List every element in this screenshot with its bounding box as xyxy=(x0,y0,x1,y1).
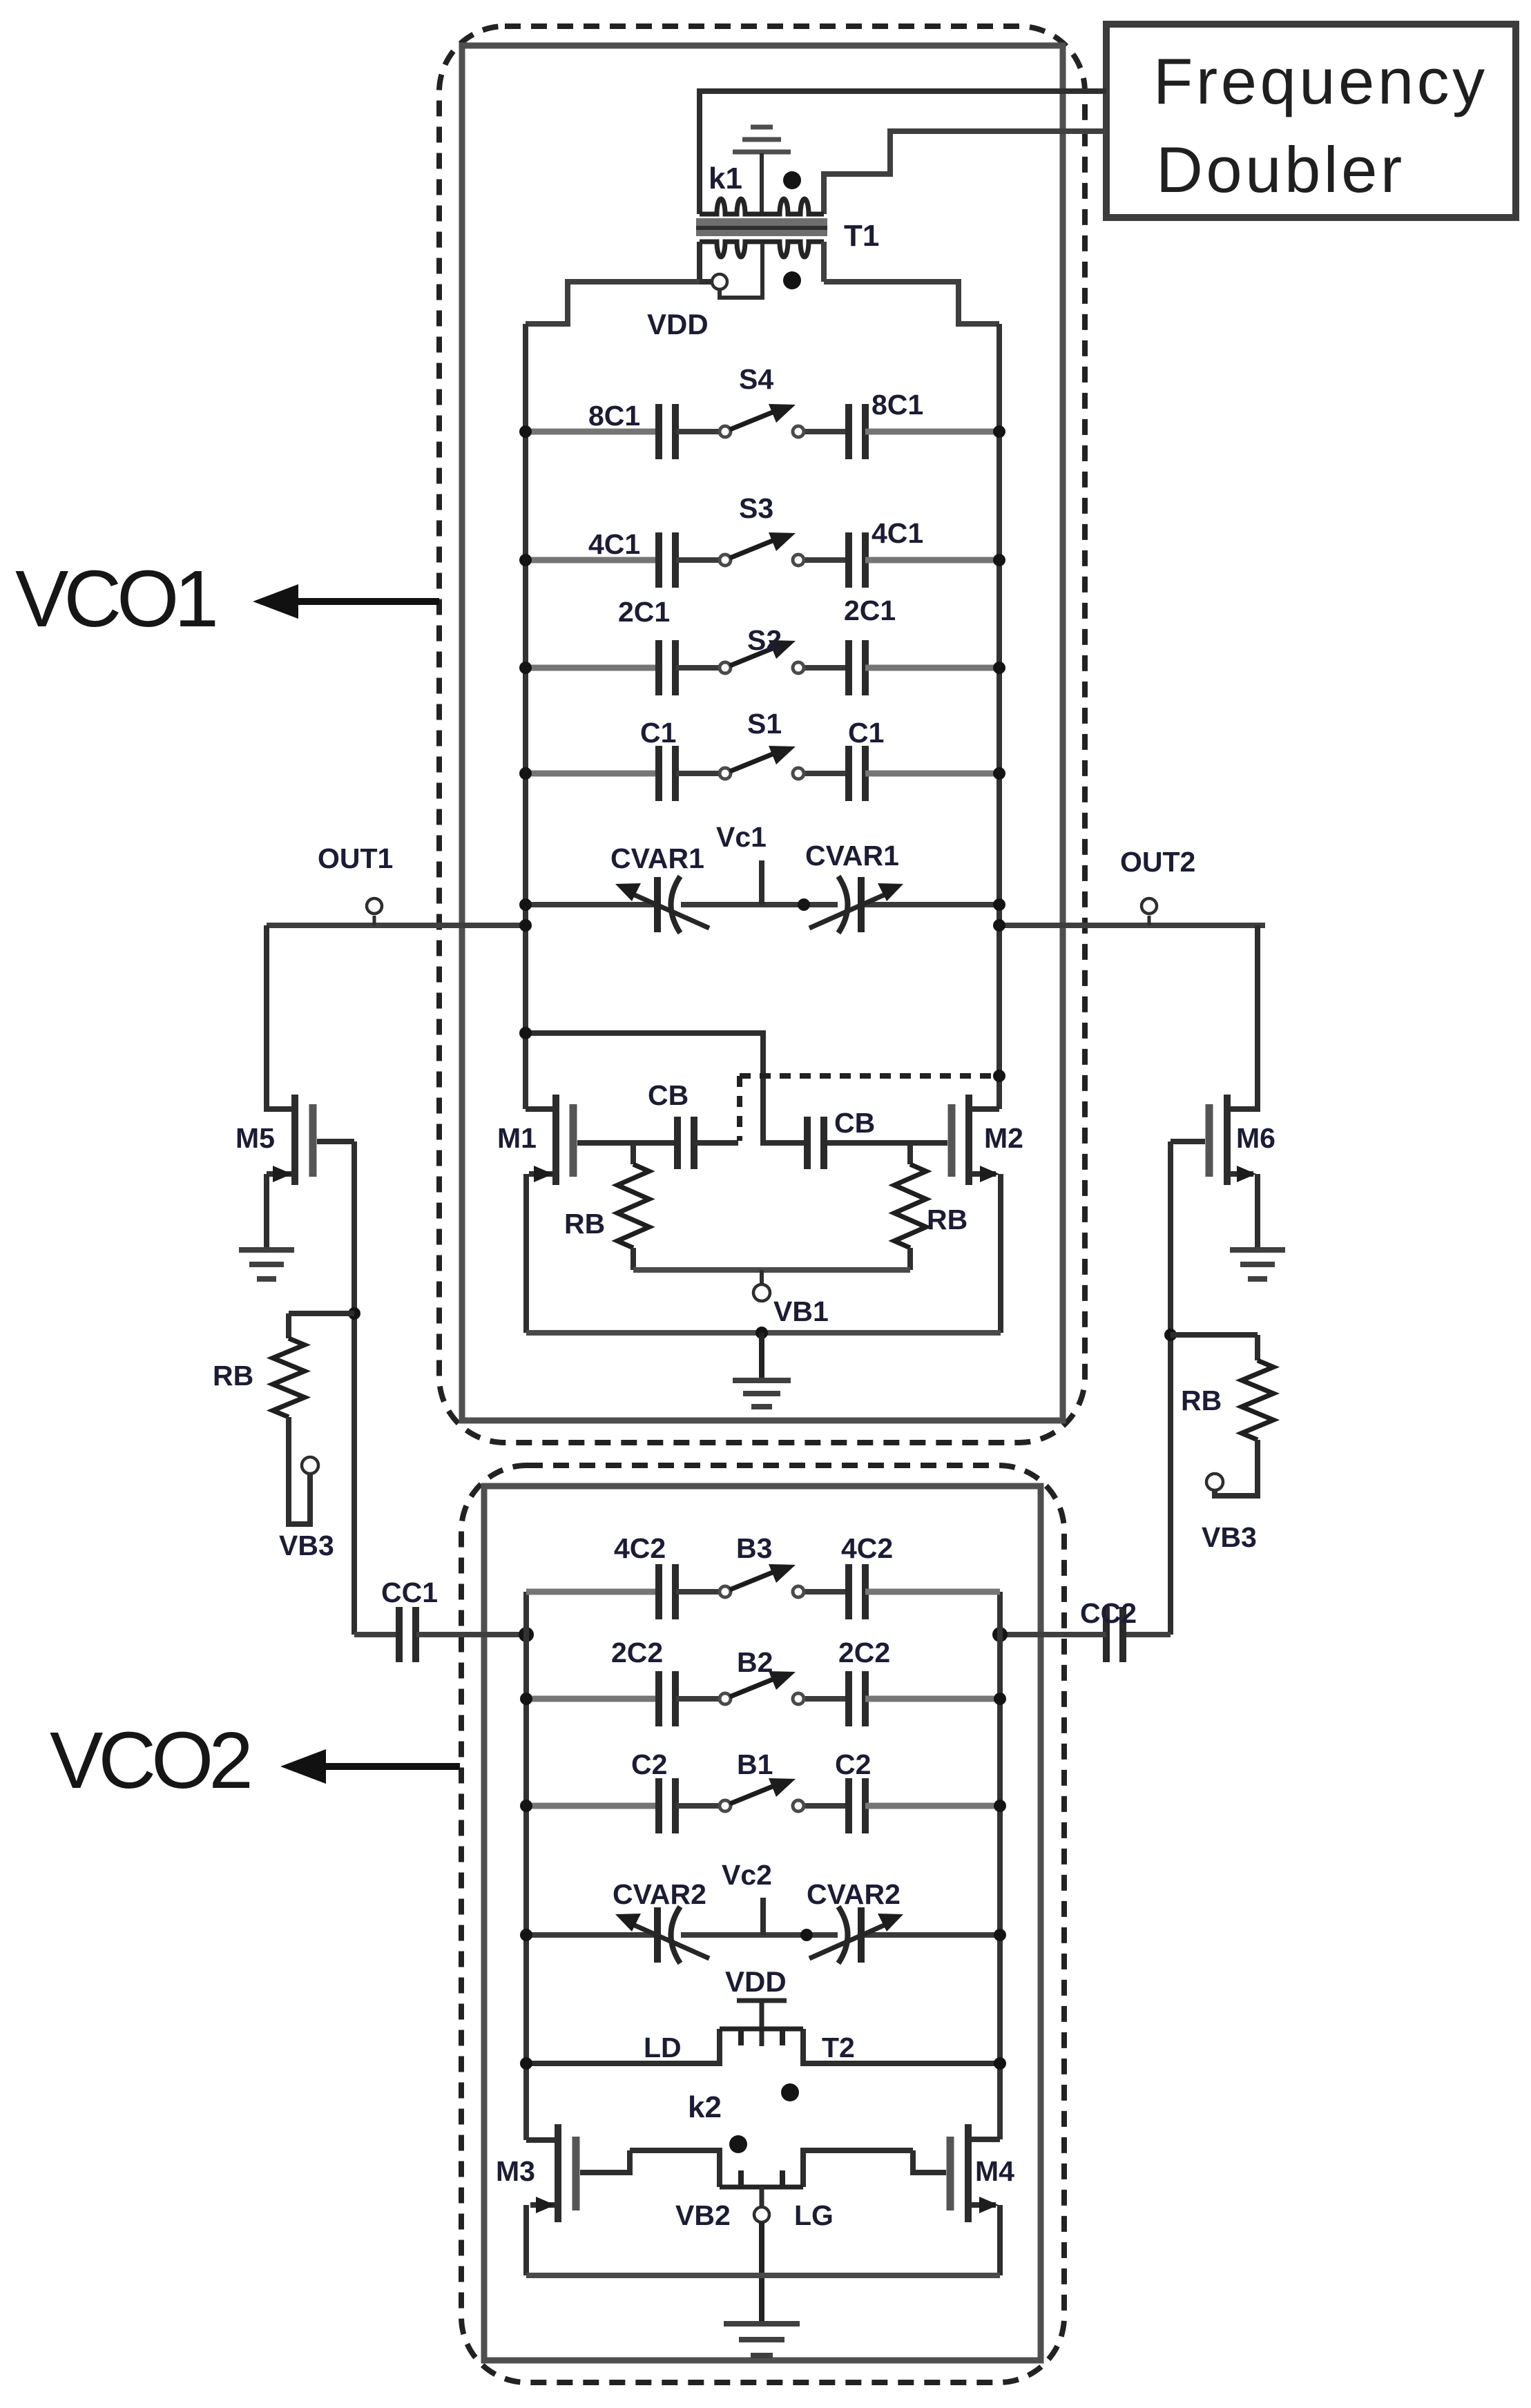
wire M6 gate xyxy=(1171,1139,1205,1144)
wire segment row S3 switch leads xyxy=(676,557,720,563)
ground (M6) xyxy=(1230,1250,1285,1279)
wire OUT1 to M5 drain xyxy=(267,925,292,1109)
transistor M3 xyxy=(558,2124,576,2222)
wire RB left bottom xyxy=(630,1248,636,1270)
M5 source arrow xyxy=(273,1166,292,1182)
svg-text:S4: S4 xyxy=(739,363,773,395)
VB3 terminal right xyxy=(1206,1474,1223,1490)
wire VDD stub xyxy=(700,279,711,285)
resistor RB (M5) xyxy=(273,1338,305,1417)
VB3 terminal left xyxy=(302,1457,318,1474)
resistor RB (M2) xyxy=(894,1164,926,1248)
junction CC1 at VCO2 rail xyxy=(519,1627,534,1642)
VCO1 right rail xyxy=(996,324,1002,1109)
wire RB M6 to VB3 xyxy=(1215,1440,1258,1496)
ground (VCO1 core) xyxy=(733,1380,791,1407)
junction left rail varactor row xyxy=(519,898,532,911)
VCO1 left rail xyxy=(523,324,528,1109)
junction M5 gate bias xyxy=(348,1307,360,1320)
VCO2 right rail xyxy=(997,1592,1003,2139)
junction left rail row S4 xyxy=(519,425,532,438)
svg-text:8C1: 8C1 xyxy=(872,389,923,421)
VCO1 pointer arrow xyxy=(298,598,439,605)
wire RB right bottom xyxy=(907,1248,913,1270)
capacitor 4C2 right of row B3 xyxy=(849,1564,865,1619)
T2 primary polarity dot xyxy=(781,2083,799,2101)
transistor M6 xyxy=(1209,1095,1227,1185)
varactor CVAR2 right xyxy=(809,1907,890,1963)
wire VB2 to ground xyxy=(759,2222,764,2322)
T2 secondary polarity dot xyxy=(729,2135,747,2153)
T1 primary winding xyxy=(700,199,824,214)
wire T1 left to left rail xyxy=(526,282,700,324)
wire CB to cross node xyxy=(693,1140,738,1146)
wire M4 drain xyxy=(971,2137,1000,2142)
svg-text:B1: B1 xyxy=(737,1749,773,1780)
wire segment row S2 right xyxy=(865,665,999,671)
capacitor 4C2 left of row B3 xyxy=(659,1564,675,1619)
wire segment row B2 switch leads xyxy=(676,1696,720,1702)
svg-text:Vc1: Vc1 xyxy=(716,821,767,853)
wire M5 source to ground xyxy=(264,1174,269,1249)
wire M1 drain xyxy=(526,1106,553,1112)
wire M4 gate xyxy=(913,2150,946,2173)
wire T1 top-right to frequency doubler xyxy=(824,131,1106,214)
svg-text:RB: RB xyxy=(927,1204,967,1235)
svg-text:S2: S2 xyxy=(747,624,782,656)
wire M3 source down xyxy=(523,2205,529,2275)
junction Vc2 node xyxy=(800,1929,813,1941)
M4 source arrow xyxy=(979,2197,999,2213)
wire segment row S3 right xyxy=(865,557,999,564)
junction left rail row S3 xyxy=(519,554,532,566)
svg-text:CVAR2: CVAR2 xyxy=(613,1878,706,1910)
wire M5 gate xyxy=(317,1139,354,1144)
svg-text:CC1: CC1 xyxy=(381,1577,438,1608)
wire segment row S1 right xyxy=(865,771,999,777)
ground stem VB1 xyxy=(759,1333,764,1380)
junction left rail OUT1 xyxy=(519,919,532,932)
capacitor CC1 xyxy=(399,1607,416,1662)
svg-text:M4: M4 xyxy=(975,2155,1014,2187)
transistor M2 xyxy=(952,1095,969,1185)
svg-text:T2: T2 xyxy=(822,2032,855,2063)
VCO1 dashed boundary box xyxy=(439,26,1085,1443)
VCO2 left rail xyxy=(523,1592,529,2140)
junction left rail row S2 xyxy=(519,662,532,674)
junction M6 gate bias xyxy=(1164,1329,1177,1341)
junction left rail row B1 xyxy=(520,1800,532,1812)
wire Vc1 stem xyxy=(759,860,764,905)
varactor CVAR1 right xyxy=(809,876,890,933)
svg-text:C2: C2 xyxy=(835,1749,871,1780)
varactor CVAR2 left xyxy=(628,1907,709,1963)
dashed wire to M1 gate CB xyxy=(737,1076,742,1141)
wire segment row B3 left xyxy=(526,1589,659,1595)
transistor M5 xyxy=(295,1095,313,1185)
svg-text:M5: M5 xyxy=(235,1122,275,1154)
wire RB right top xyxy=(907,1143,913,1164)
capacitor C1 left of row S1 xyxy=(659,746,675,801)
svg-text:LG: LG xyxy=(794,2199,834,2231)
resistor RB (M6) xyxy=(1242,1360,1273,1440)
svg-text:CVAR1: CVAR1 xyxy=(805,840,899,871)
wire segment row B1 right xyxy=(865,1803,1000,1809)
svg-text:C1: C1 xyxy=(640,717,676,749)
wire LD row right xyxy=(803,2029,1000,2063)
capacitor C1 right of row S1 xyxy=(849,746,865,801)
junction right rail row B1 xyxy=(994,1800,1006,1812)
svg-text:OUT1: OUT1 xyxy=(318,842,393,874)
svg-text:k1: k1 xyxy=(709,162,742,195)
junction left rail LD row xyxy=(520,2057,532,2070)
VCO2 dashed boundary box xyxy=(461,1465,1064,2382)
capacitor 4C1 left of row S3 xyxy=(659,532,675,588)
capacitor CB (M2 gate) xyxy=(807,1117,824,1169)
junction Vc1 node xyxy=(798,898,810,911)
VDD terminal of T1 xyxy=(712,274,727,289)
wire M6 source xyxy=(1230,1171,1253,1177)
svg-text:RB: RB xyxy=(1181,1385,1222,1416)
wire source bus xyxy=(526,1330,1001,1336)
svg-text:CVAR2: CVAR2 xyxy=(807,1878,901,1910)
svg-text:OUT2: OUT2 xyxy=(1120,846,1195,878)
capacitor CC2 xyxy=(1106,1607,1123,1662)
junction left rail varactor row VCO2 xyxy=(520,1929,532,1941)
svg-text:CC2: CC2 xyxy=(1080,1597,1137,1629)
wire segment row B3 right xyxy=(865,1589,1000,1595)
VCO1 tank solid box xyxy=(462,46,1063,1420)
svg-text:B2: B2 xyxy=(737,1646,773,1678)
svg-text:CB: CB xyxy=(648,1079,689,1111)
svg-text:CB: CB xyxy=(834,1107,875,1139)
VCO2 tank solid box xyxy=(484,1486,1041,2360)
wire varactor row VCO1 xyxy=(526,902,657,907)
svg-text:4C1: 4C1 xyxy=(588,528,640,560)
wire M2 gate xyxy=(824,1140,947,1146)
svg-text:VCO1: VCO1 xyxy=(15,554,215,644)
svg-text:4C2: 4C2 xyxy=(841,1532,893,1564)
wire segment row B2 right xyxy=(865,1696,1000,1702)
dashed wire M2 drain cross xyxy=(740,1073,999,1079)
junction right rail row S4 xyxy=(993,425,1005,438)
wire T1 center tap to VDD terminal xyxy=(720,243,762,298)
switch S3 xyxy=(720,532,804,566)
junction source bus to ground xyxy=(755,1327,768,1339)
wire M4 source xyxy=(972,2202,996,2208)
junction M1 drain cross wire xyxy=(519,1027,532,1039)
capacitor 2C1 left of row S2 xyxy=(659,640,675,695)
transistor M1 xyxy=(556,1095,573,1185)
wire LD row left xyxy=(526,2029,720,2063)
wire to RB (M6) xyxy=(1171,1332,1258,1338)
switch S2 xyxy=(720,640,804,673)
M2 source arrow xyxy=(980,1166,999,1182)
wire M1 gate xyxy=(577,1140,678,1146)
wire M6 source to ground xyxy=(1255,1174,1260,1249)
wire M1 source down to bus xyxy=(523,1174,529,1333)
wire OUT2 to tank xyxy=(999,923,1265,928)
wire LG left xyxy=(630,2150,720,2187)
svg-text:2C2: 2C2 xyxy=(611,1637,663,1668)
M6 source arrow xyxy=(1237,1166,1256,1182)
junction left rail row S1 xyxy=(519,767,532,780)
resistor RB (M1) xyxy=(617,1164,649,1248)
wire segment row S3 left xyxy=(526,557,659,564)
svg-text:VDD: VDD xyxy=(725,1965,787,1998)
wire M5 source xyxy=(267,1171,292,1177)
VB1 stem xyxy=(760,1270,764,1284)
switch B2 xyxy=(720,1671,804,1704)
frequency doubler block xyxy=(1106,24,1516,218)
svg-text:B3: B3 xyxy=(736,1532,772,1564)
wire M1 source xyxy=(529,1171,552,1177)
svg-text:VB3: VB3 xyxy=(1202,1521,1257,1553)
wire VCO2 source bus xyxy=(526,2273,1000,2278)
capacitor C2 right of row B1 xyxy=(849,1778,865,1833)
wire Vc2 stem xyxy=(760,1898,766,1935)
OUT1 terminal stem xyxy=(373,916,376,925)
wire RB left top xyxy=(630,1143,636,1164)
svg-text:C2: C2 xyxy=(631,1749,667,1780)
svg-text:S1: S1 xyxy=(747,708,782,740)
junction right rail row B2 xyxy=(994,1693,1006,1705)
svg-text:LD: LD xyxy=(644,2032,682,2063)
ground (M5) xyxy=(239,1250,294,1279)
wire M2 source xyxy=(972,1171,996,1177)
wire M5 gate bias rail xyxy=(352,1142,357,1635)
capacitor 2C2 right of row B2 xyxy=(849,1671,865,1726)
svg-text:C1: C1 xyxy=(848,717,884,749)
wire M2 drain xyxy=(972,1106,999,1112)
wire segment row B3 switch leads xyxy=(676,1589,720,1595)
wire OUT2 to M6 drain xyxy=(1230,925,1258,1109)
wire segment row S4 left xyxy=(526,429,659,435)
ground at T1 top (inverted) xyxy=(733,127,791,152)
wire T1 top center tap to ground xyxy=(760,153,764,214)
svg-text:M6: M6 xyxy=(1236,1122,1275,1154)
svg-text:Doubler: Doubler xyxy=(1156,133,1405,206)
wire LG center tap to VB2 xyxy=(760,2187,764,2207)
T2 secondary winding LG xyxy=(720,2170,803,2187)
svg-text:Vc2: Vc2 xyxy=(722,1859,772,1891)
svg-text:S3: S3 xyxy=(739,492,773,524)
svg-text:RB: RB xyxy=(213,1360,253,1391)
junction right rail varactor row xyxy=(993,898,1005,911)
switch B1 xyxy=(720,1778,804,1811)
transistor M4 xyxy=(950,2124,968,2222)
junction right rail varactor row VCO2 xyxy=(994,1929,1006,1941)
wire segment row S1 left xyxy=(526,771,659,777)
varactor CVAR1 left xyxy=(628,876,709,933)
svg-text:2C1: 2C1 xyxy=(844,595,896,626)
svg-text:T1: T1 xyxy=(844,219,879,253)
junction right rail LD row xyxy=(994,2057,1006,2070)
wire to RB (M5) xyxy=(289,1311,354,1316)
M3 source arrow xyxy=(536,2197,555,2213)
svg-text:VB1: VB1 xyxy=(773,1295,829,1327)
switch S1 xyxy=(720,746,804,779)
wire RB M5 to VB3 xyxy=(289,1417,310,1524)
wire to CC2 xyxy=(1124,1632,1171,1637)
wire M6 gate bias rail xyxy=(1168,1142,1173,1635)
junction right rail row S3 xyxy=(993,554,1005,566)
svg-text:M1: M1 xyxy=(497,1122,537,1154)
svg-text:Frequency: Frequency xyxy=(1153,45,1488,117)
wire M3 drain xyxy=(526,2137,555,2143)
wire segment row S1 switch leads xyxy=(676,771,720,776)
junction right rail row S2 xyxy=(993,662,1005,674)
svg-text:VCO2: VCO2 xyxy=(50,1715,249,1805)
wire RB M6 top xyxy=(1255,1335,1260,1360)
wire varactor row VCO2 xyxy=(526,1932,657,1938)
svg-text:VB2: VB2 xyxy=(675,2199,731,2231)
svg-text:2C2: 2C2 xyxy=(838,1637,890,1668)
wire to CC1 xyxy=(354,1632,399,1637)
wire segment row S2 switch leads xyxy=(676,665,720,671)
ground (VCO2 core) xyxy=(724,2324,800,2356)
svg-text:k2: k2 xyxy=(688,2090,722,2124)
wire segment row B1 left xyxy=(526,1803,659,1809)
wire RB M5 top xyxy=(286,1313,291,1338)
wire LG right xyxy=(803,2150,913,2187)
wire T1 right to right rail xyxy=(824,282,999,324)
wire segment row B2 left xyxy=(526,1696,659,1702)
OUT1 terminal xyxy=(367,898,382,914)
svg-text:8C1: 8C1 xyxy=(588,400,640,432)
svg-text:RB: RB xyxy=(564,1208,605,1240)
VB2 terminal xyxy=(754,2207,769,2222)
svg-text:VDD: VDD xyxy=(647,308,709,340)
wire M2 source down to bus xyxy=(998,1174,1003,1333)
wire CC1 to VCO2 xyxy=(416,1632,526,1637)
svg-text:4C2: 4C2 xyxy=(614,1532,666,1564)
wire segment row S4 right xyxy=(865,429,999,435)
T2 primary winding LD xyxy=(720,2029,803,2045)
wire M3 gate xyxy=(580,2150,630,2173)
switch S4 xyxy=(720,404,804,437)
OUT2 terminal xyxy=(1142,898,1157,914)
T1 secondary polarity dot xyxy=(783,271,801,289)
T1 primary polarity dot xyxy=(783,171,801,189)
wire OUT1 to tank xyxy=(267,923,526,928)
capacitor 8C1 right of row S4 xyxy=(849,404,865,459)
T1 core bars xyxy=(696,218,827,236)
junction left rail row B2 xyxy=(520,1693,532,1705)
wire T1 secondary right end down xyxy=(821,242,827,282)
wire VDD to T2 center tap xyxy=(760,2001,764,2046)
VCO2 pointer arrow xyxy=(326,1763,460,1770)
T1 secondary winding xyxy=(700,242,824,257)
wire segment row S2 left xyxy=(526,665,659,671)
VB1 terminal xyxy=(753,1284,770,1301)
wire segment row B1 switch leads xyxy=(676,1803,720,1809)
junction right rail row S1 xyxy=(993,767,1005,780)
wire T1 top-left to frequency doubler xyxy=(700,91,1106,214)
svg-text:M2: M2 xyxy=(984,1122,1023,1154)
junction right rail OUT2 xyxy=(993,919,1005,932)
wire CC2 to VCO2 xyxy=(1000,1632,1106,1637)
capacitor 8C1 left of row S4 xyxy=(659,404,675,459)
wire T1 secondary left end down xyxy=(697,242,702,282)
junction CC2 at VCO2 rail xyxy=(992,1627,1008,1642)
OUT2 terminal stem xyxy=(1148,916,1151,925)
capacitor CB (M1 gate) xyxy=(677,1117,694,1169)
junction M2 drain cross wire xyxy=(993,1070,1005,1082)
wire segment row S4 switch leads xyxy=(676,429,720,434)
svg-text:4C1: 4C1 xyxy=(872,517,923,549)
capacitor C2 left of row B1 xyxy=(659,1778,675,1833)
svg-text:VB3: VB3 xyxy=(279,1530,334,1561)
svg-text:CVAR1: CVAR1 xyxy=(610,842,704,874)
capacitor 2C1 right of row S2 xyxy=(849,640,865,695)
switch B3 xyxy=(720,1564,804,1597)
wire M1 drain to CB of M2 gate xyxy=(526,1033,805,1143)
wire M4 source down xyxy=(997,2205,1003,2275)
capacitor 4C1 right of row S3 xyxy=(849,532,865,588)
svg-text:2C1: 2C1 xyxy=(618,596,670,628)
M1 source arrow xyxy=(534,1166,553,1182)
svg-text:M3: M3 xyxy=(496,2155,535,2187)
capacitor 2C2 left of row B2 xyxy=(659,1671,675,1726)
wire RB common xyxy=(633,1267,910,1273)
wire M3 source xyxy=(530,2202,555,2208)
